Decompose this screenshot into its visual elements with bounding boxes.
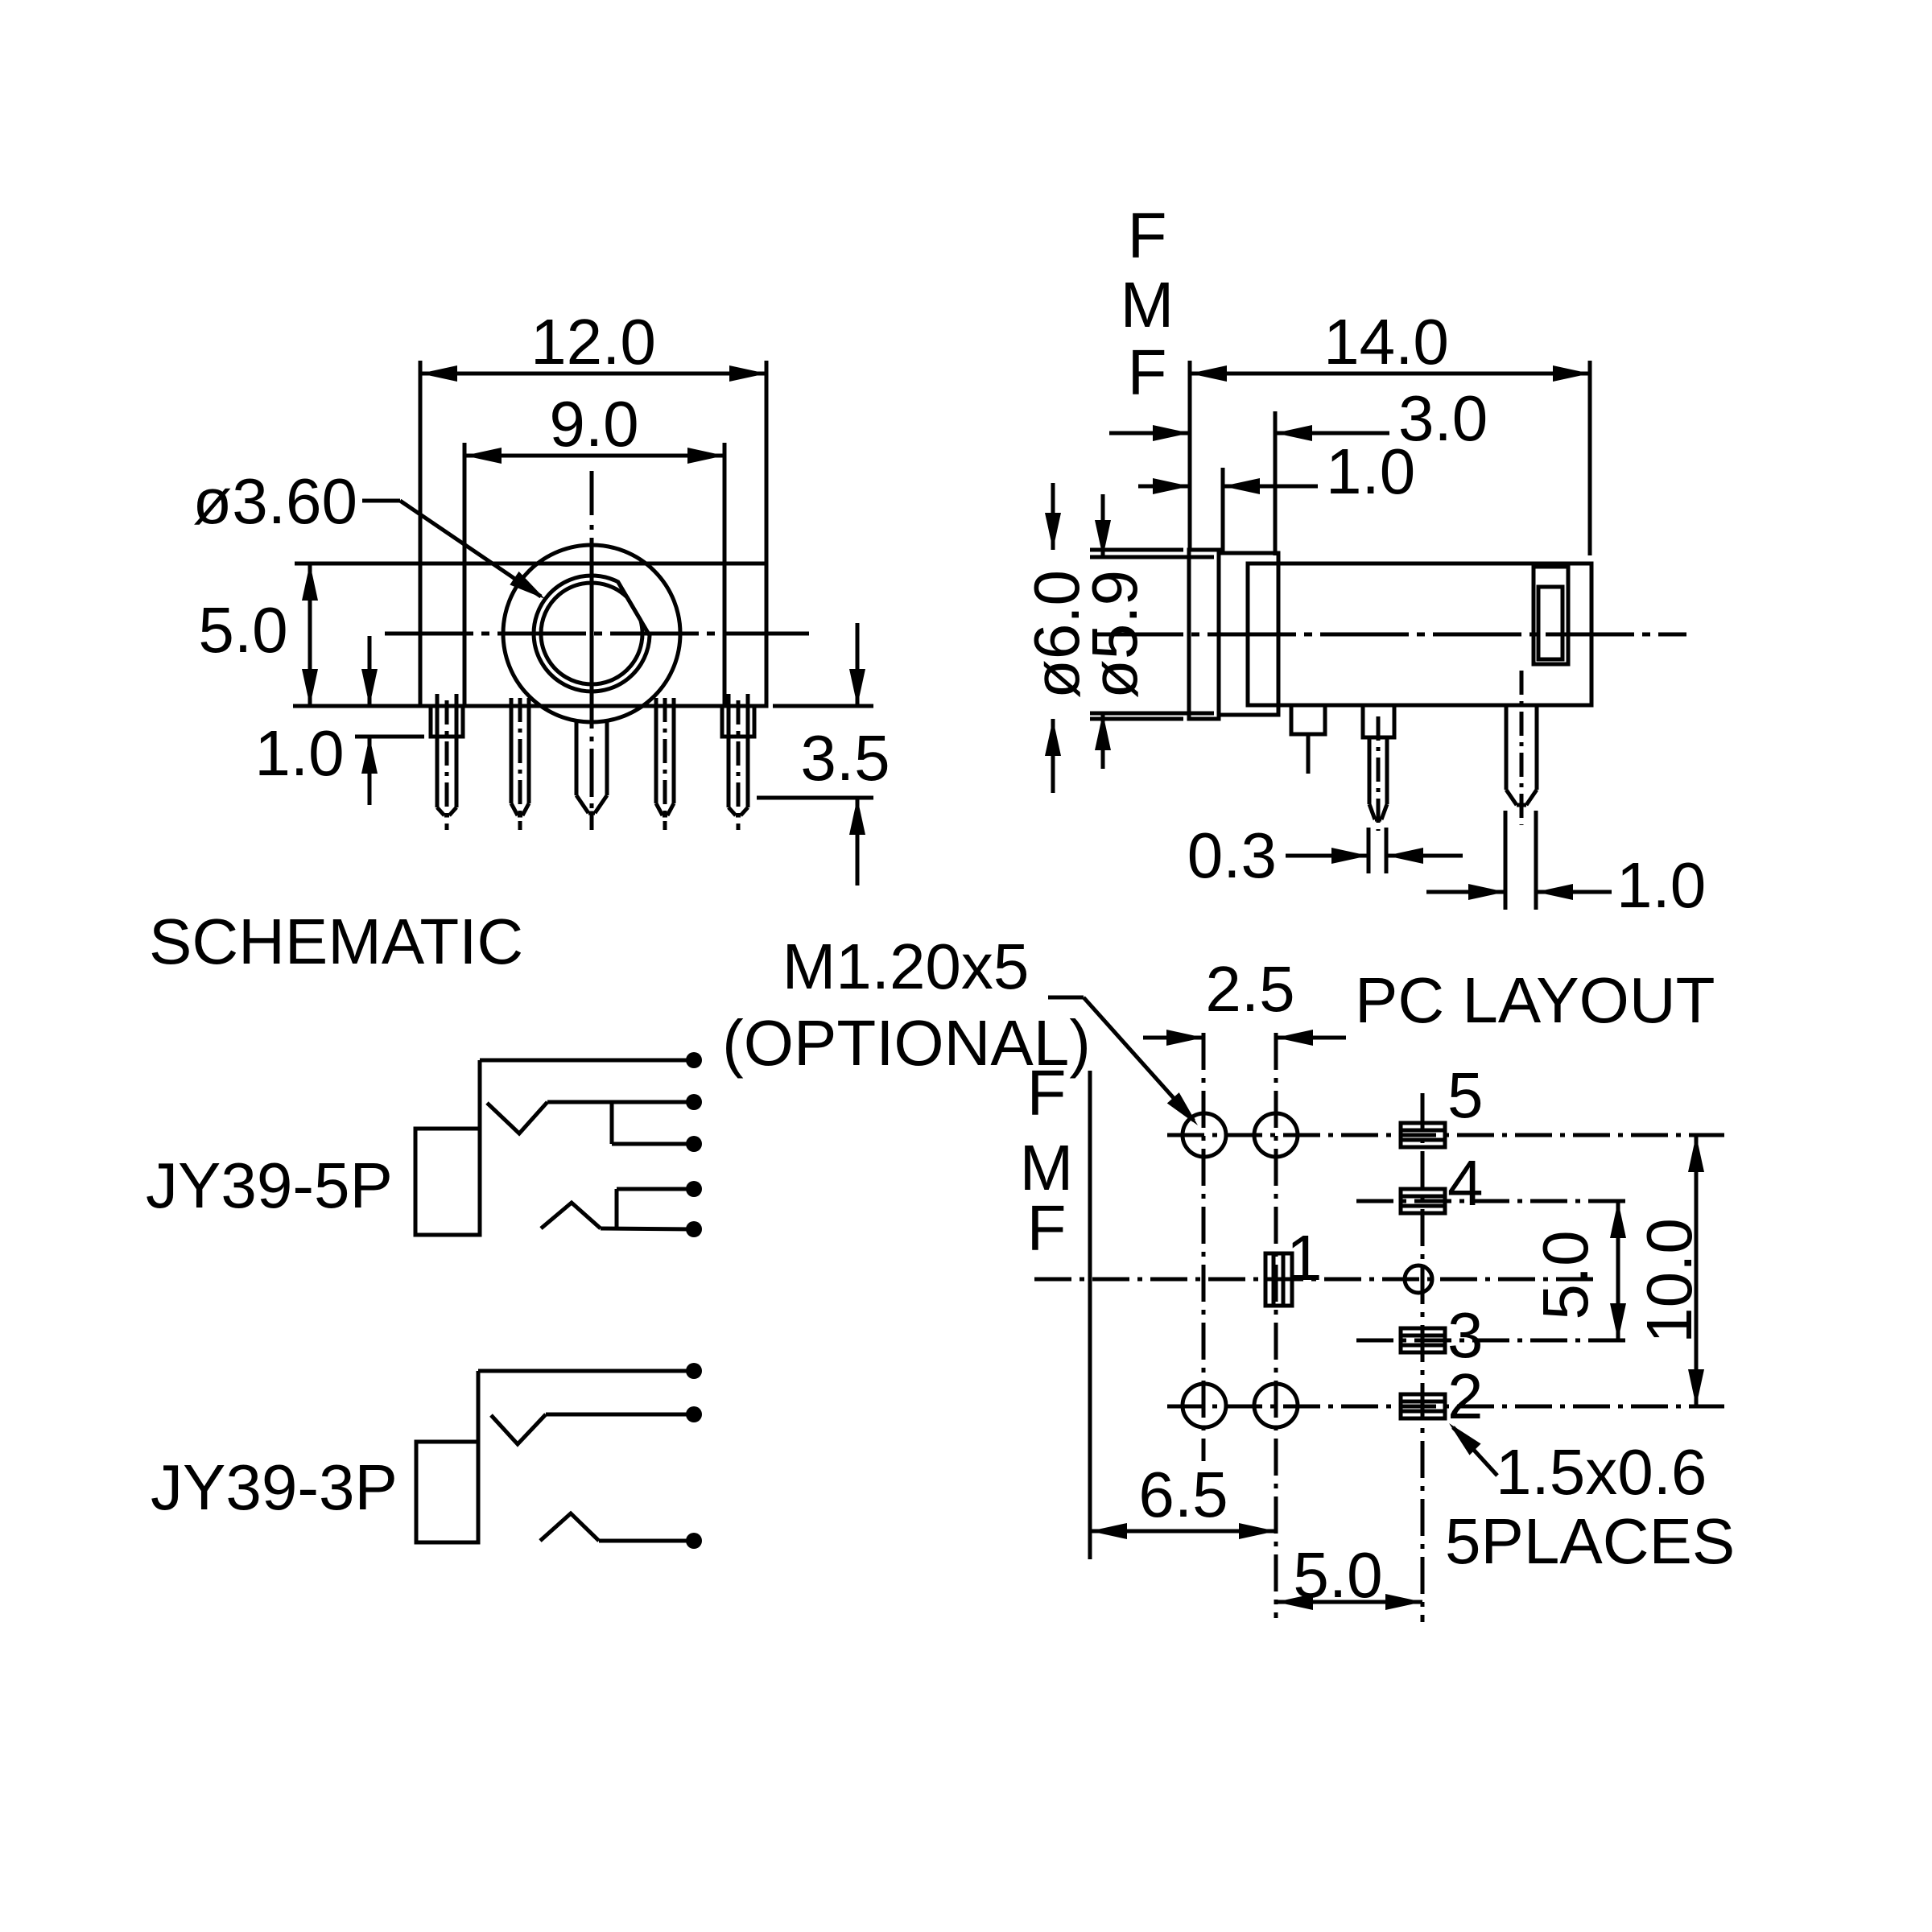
svg-text:M1.20x5: M1.20x5	[782, 931, 1030, 1002]
svg-text:14.0: 14.0	[1323, 306, 1449, 378]
svg-text:0.3: 0.3	[1187, 819, 1277, 891]
svg-text:2.5: 2.5	[1205, 953, 1294, 1025]
svg-text:JY39-5P: JY39-5P	[146, 1150, 393, 1221]
svg-text:1.0: 1.0	[1326, 436, 1415, 507]
svg-text:F: F	[1027, 1192, 1067, 1264]
svg-text:5: 5	[1447, 1059, 1484, 1131]
svg-text:4: 4	[1447, 1147, 1484, 1219]
svg-text:PC LAYOUT: PC LAYOUT	[1355, 964, 1715, 1036]
svg-text:2: 2	[1447, 1360, 1484, 1432]
svg-text:JY39-3P: JY39-3P	[151, 1451, 398, 1523]
svg-text:5.0: 5.0	[198, 594, 287, 666]
svg-text:10.0: 10.0	[1633, 1218, 1705, 1344]
svg-text:M: M	[1121, 269, 1174, 341]
svg-text:9.0: 9.0	[549, 388, 638, 460]
svg-text:12.0: 12.0	[530, 306, 656, 378]
svg-text:1.0: 1.0	[254, 717, 344, 789]
svg-text:5.0: 5.0	[1293, 1539, 1382, 1611]
svg-text:5.0: 5.0	[1529, 1230, 1601, 1319]
svg-text:F: F	[1027, 1057, 1067, 1129]
svg-text:6.5: 6.5	[1138, 1459, 1228, 1530]
svg-text:5PLACES: 5PLACES	[1445, 1505, 1735, 1577]
svg-text:3.5: 3.5	[800, 722, 890, 794]
svg-text:F: F	[1128, 200, 1167, 271]
svg-text:SCHEMATIC: SCHEMATIC	[149, 906, 523, 977]
svg-text:F: F	[1128, 336, 1167, 408]
svg-text:1: 1	[1286, 1222, 1323, 1294]
svg-text:ø3.60: ø3.60	[192, 465, 357, 537]
svg-text:1.0: 1.0	[1616, 849, 1706, 921]
svg-text:1.5x0.6: 1.5x0.6	[1496, 1436, 1707, 1508]
